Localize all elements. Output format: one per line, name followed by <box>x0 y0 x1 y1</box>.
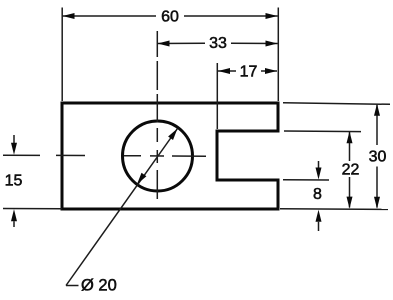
extension line of bottom edge to the right <box>280 208 388 211</box>
dimension 30 <box>369 104 387 209</box>
extension line right of 60 <box>277 8 279 102</box>
hole circle <box>123 121 193 191</box>
extension line of top edge to the right <box>283 103 390 105</box>
svg-text:60: 60 <box>161 9 179 26</box>
dimension 22 <box>342 131 360 208</box>
svg-text:30: 30 <box>369 149 387 166</box>
svg-text:8: 8 <box>313 186 322 203</box>
svg-text:22: 22 <box>342 162 360 179</box>
extension line of notch bottom edge to the right <box>283 179 329 181</box>
extension line of notch left edge <box>216 63 218 129</box>
leader and diameter dimension Ø 20 <box>66 129 178 295</box>
dimension 60 <box>63 9 278 26</box>
extension line left of 60 <box>61 8 63 102</box>
part outline <box>62 103 278 209</box>
dimension 15 <box>5 135 23 227</box>
extension line of notch top edge to the right <box>284 130 361 133</box>
svg-text:15: 15 <box>5 173 23 190</box>
svg-text:Ø 20: Ø 20 <box>81 277 117 295</box>
extension line of bottom edge to the left <box>3 208 62 210</box>
dimension 33 <box>158 35 278 52</box>
horizontal centerline <box>3 154 206 157</box>
vertical centerline <box>156 31 158 199</box>
dimension 17 <box>218 64 277 81</box>
dimension 8 <box>313 161 322 231</box>
svg-text:33: 33 <box>209 35 227 52</box>
svg-text:17: 17 <box>240 64 258 81</box>
